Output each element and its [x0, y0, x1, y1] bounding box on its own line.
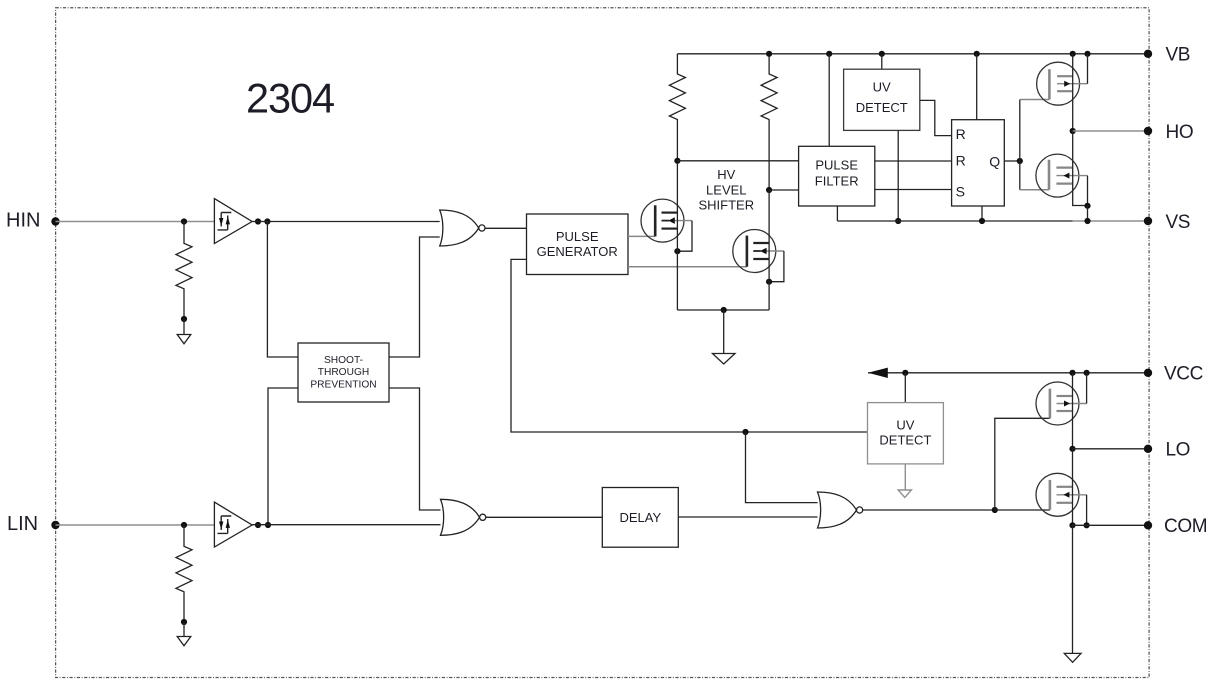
wire PG output to M2 gate: [628, 266, 747, 268]
wire M1 drain-source channel: [676, 161, 678, 310]
wire R2 junction to pulse filter input 2: [769, 189, 799, 191]
wire source rail to ground: [723, 310, 725, 354]
node R1 / pulse filter junction: [674, 158, 680, 164]
wire M6 channel LO to COM: [1072, 449, 1074, 526]
wire PG output to M1 gate: [628, 235, 655, 237]
svg-text:R: R: [956, 126, 966, 142]
node U1 output dots: [255, 218, 271, 224]
wire LO to pin: [1073, 448, 1149, 450]
node COM/M6 body: [1084, 522, 1090, 528]
svg-text:R: R: [956, 153, 966, 169]
wire level shifter common source rail: [677, 309, 769, 311]
wire LIN node up to shoot-through input: [268, 388, 298, 525]
wire U2 output to NOR2 lower input: [252, 524, 440, 526]
svg-text:LO: LO: [1166, 440, 1191, 461]
block PULSE FILTER: [799, 146, 875, 206]
resistor R1 level-shifter load left: [669, 54, 685, 161]
node HO: [1070, 128, 1076, 134]
wire M4 channel HO to source: [1073, 131, 1088, 206]
transistor M1 level shifter left: [641, 199, 692, 251]
wire UV detect bottom to VS rail: [897, 130, 899, 221]
resistor R2 level-shifter load right: [761, 54, 777, 190]
node R-HIN bottom junction: [181, 316, 187, 322]
wire G3 output to low-side gates: [863, 509, 995, 511]
block PULSE GENERATOR: [527, 214, 629, 275]
node VCC/M5 body: [1084, 370, 1090, 376]
transistor M2 level shifter right: [733, 230, 784, 282]
pin COM dot: [1144, 521, 1152, 529]
arrow VCC feed left: [868, 368, 888, 378]
node R2 / pulse filter junction: [766, 187, 772, 193]
node VCC/UV-detect: [902, 370, 908, 376]
wire Q to M4 gate: [1020, 189, 1049, 191]
wire M2 drain-source channel: [768, 190, 770, 310]
wire pulse filter bottom to VS rail: [836, 206, 838, 221]
svg-text:2304: 2304: [246, 75, 334, 122]
wire G2 output to DELAY: [486, 516, 603, 518]
resistor R-LIN pulldown: [176, 525, 192, 622]
node VB/pulse-filter: [826, 51, 832, 57]
svg-text:COM: COM: [1164, 516, 1207, 537]
transistor M4 HO pull-down: [1036, 154, 1088, 206]
ground symbol below UV detect: [898, 490, 911, 498]
pin VS dot: [1144, 217, 1152, 225]
svg-text:S: S: [956, 184, 965, 200]
transistor M5 LO pull-up: [1036, 373, 1087, 425]
wire pulse filter to latch R2: [875, 160, 952, 162]
wire Q gate bus vertical: [1019, 100, 1021, 190]
node VB/M3 body: [1084, 51, 1090, 57]
NOR gate G2: [441, 499, 486, 535]
node latch/VS rail: [979, 218, 985, 224]
node UV-detect/VS rail: [895, 218, 901, 224]
node M4/VS rail: [1084, 218, 1090, 224]
wire M3 channel VB to HO: [1072, 54, 1074, 131]
wire Q to M3 gate: [1020, 99, 1050, 101]
wire HIN input lead: [56, 221, 215, 223]
NOR gate G3: [818, 492, 863, 528]
pin LO dot: [1144, 445, 1152, 453]
wire VB rail down to latch top: [976, 54, 978, 120]
block DELAY: [602, 488, 678, 548]
wire VB rail down to pulse filter top: [828, 54, 830, 147]
wire R1 junction to pulse filter input 1: [677, 160, 798, 162]
node low-side gating junction: [742, 429, 748, 435]
pin LIN terminal dot: [51, 521, 59, 529]
svg-text:UV: UV: [896, 417, 914, 432]
node VB/UV-detect: [879, 51, 885, 57]
wire COM down to ground: [1072, 525, 1074, 653]
wire branch to M6 gate: [995, 509, 1050, 511]
transistor M6 LO pull-down: [1036, 473, 1087, 525]
pin VB dot: [1144, 50, 1152, 58]
svg-text:PULSE: PULSE: [556, 229, 599, 244]
wire G1 output to pulse generator: [485, 227, 527, 229]
wire UV detect output to latch R1: [920, 100, 952, 135]
node HIN pulldown junction: [181, 218, 187, 224]
wire HO to pin: [1073, 130, 1148, 132]
node LIN pulldown junction: [181, 522, 187, 528]
svg-text:HIN: HIN: [6, 209, 40, 231]
svg-text:Q: Q: [989, 153, 1000, 169]
node VB/M3 drain: [1070, 51, 1076, 57]
node VB/R2: [766, 51, 772, 57]
svg-text:HV: HV: [717, 167, 735, 182]
wire VS rail: [837, 220, 1072, 222]
svg-text:DELAY: DELAY: [619, 510, 661, 525]
wire shoot-through lower output to NOR2 upper input: [389, 388, 441, 510]
node Q gate branch: [1017, 158, 1023, 164]
svg-text:LEVEL: LEVEL: [706, 183, 746, 198]
node LO: [1069, 446, 1075, 452]
wire UV detect bottom lead: [904, 464, 906, 490]
wire M4 source to VS rail: [1087, 206, 1089, 221]
svg-text:GENERATOR: GENERATOR: [537, 244, 618, 259]
label HV LEVEL SHIFTER: [698, 167, 754, 213]
svg-text:HO: HO: [1166, 122, 1194, 143]
wire VS rail right segment: [1073, 220, 1148, 222]
wire DELAY to NOR3 lower input: [678, 516, 817, 518]
wire latch bottom to VS rail: [981, 206, 983, 221]
transistor M3 HO pull-up: [1037, 54, 1088, 105]
pin HO dot: [1144, 127, 1152, 135]
svg-text:PULSE: PULSE: [815, 158, 858, 173]
resistor R-HIN pulldown: [176, 222, 192, 320]
wire latch Q output: [1004, 160, 1020, 162]
svg-text:PREVENTION: PREVENTION: [310, 379, 376, 390]
wire VB supply rail: [677, 53, 1148, 55]
wire pulse generator down-rail to UV detect low side: [511, 259, 868, 432]
NOR gate G1: [440, 210, 485, 246]
node VCC/M5 drain: [1069, 370, 1075, 376]
node M4 source-body: [1084, 203, 1090, 209]
node R-LIN bottom junction: [181, 619, 187, 625]
svg-text:DETECT: DETECT: [856, 100, 908, 115]
svg-text:VS: VS: [1166, 212, 1191, 233]
pin VCC dot: [1144, 369, 1152, 377]
svg-text:UV: UV: [873, 80, 891, 95]
node U2 output dots: [255, 522, 271, 528]
wire VB rail down to UV detect top: [881, 54, 883, 69]
node low-side gate branch: [992, 507, 998, 513]
node source rail center tap: [721, 307, 727, 313]
wire shoot-through upper output to NOR1 lower input: [389, 237, 440, 357]
schmitt hysteresis glyph U1: [218, 213, 232, 230]
svg-text:VB: VB: [1166, 45, 1191, 66]
ground symbol level shifter: [713, 354, 736, 365]
svg-text:DETECT: DETECT: [879, 432, 931, 447]
wire VCC supply rail: [868, 372, 1148, 374]
svg-text:VCC: VCC: [1164, 364, 1203, 385]
wire branch up to M5 gate: [995, 418, 1050, 510]
block RS latch U4: [952, 120, 1005, 206]
wire M5 channel VCC to LO: [1072, 373, 1074, 449]
ground symbol below R-HIN: [177, 319, 191, 344]
block UV DETECT high side U3: [844, 69, 920, 130]
wire U1 output to NOR1 top input: [252, 221, 440, 223]
wire HIN node down to shoot-through input: [267, 222, 298, 358]
node M1 source-body: [674, 248, 680, 254]
wire COM rail to pin: [1073, 524, 1149, 526]
ground symbol below R-LIN: [177, 622, 191, 646]
wire VCC down to UV detect top: [904, 373, 906, 403]
node COM/M6 source: [1069, 522, 1075, 528]
schmitt hysteresis glyph U2: [218, 516, 232, 533]
svg-text:SHOOT-: SHOOT-: [324, 355, 363, 366]
node VB/latch: [974, 51, 980, 57]
svg-text:THROUGH: THROUGH: [318, 367, 370, 378]
block UV DETECT low side U5: [868, 403, 944, 464]
node M2 source-body: [766, 279, 772, 285]
wire pulse filter to latch S: [875, 189, 952, 191]
block SHOOT-THROUGH PREVENTION: [298, 343, 389, 402]
schmitt buffer U1: [214, 199, 252, 244]
svg-text:SHIFTER: SHIFTER: [698, 198, 754, 213]
svg-text:LIN: LIN: [7, 513, 38, 535]
wire junction down to NOR3 upper input: [746, 432, 818, 503]
svg-text:FILTER: FILTER: [815, 174, 859, 189]
schmitt buffer U2: [214, 502, 252, 547]
wire LIN input lead: [56, 524, 215, 526]
ground symbol COM: [1064, 653, 1081, 662]
pin HIN terminal dot: [51, 217, 59, 225]
